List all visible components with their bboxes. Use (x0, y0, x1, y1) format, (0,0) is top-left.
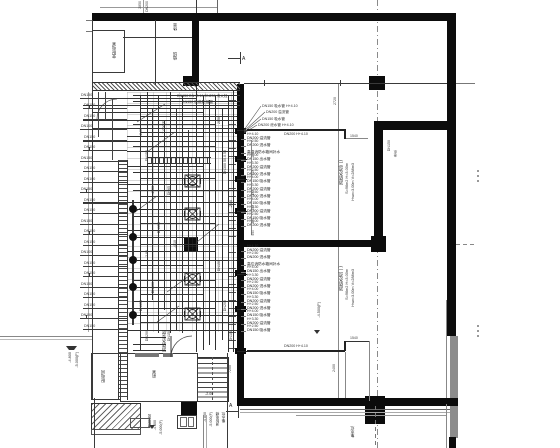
valve assembly y207 (184, 207, 201, 221)
anteroom top wall grey fill (135, 353, 159, 357)
left margin vline bottom (94, 398, 95, 448)
label 消防水池(一) (339, 266, 344, 291)
left wall second line (88, 92, 89, 332)
pipe label DN300 50.0.50 (224, 150, 228, 174)
pipe label DN65 (168, 186, 172, 195)
column C1 (mid, at tank walls junction) (371, 236, 386, 252)
pump symbol box with X (center) (185, 170, 187, 172)
anteroom 前室 (120, 353, 198, 402)
pipe riser x233 (233, 90, 234, 352)
door arc (pump room door) (168, 333, 198, 359)
door arc top-left of pump room (96, 98, 118, 120)
wall foot block at x183 (183, 76, 199, 86)
grid line horizontal y83 right stub (456, 83, 475, 84)
dim 2400 (333, 364, 337, 372)
label 前室 (152, 370, 157, 378)
pipe label DN150 (158, 222, 162, 233)
pipe riser x222 (222, 108, 223, 340)
wall tick y31 left (86, 31, 92, 32)
pipe label DN100 (230, 330, 234, 341)
ladder-hatch wall band (pump room left) (118, 160, 128, 400)
stair center line + arrow (212, 357, 213, 400)
wall: tank room (2) left (374, 121, 383, 237)
room2 labels (388, 140, 392, 151)
pipe stub rows with DN labels (left margin) (0, 0, 1, 1)
diagonal hatched pit (bottom-left) (91, 403, 141, 430)
riser ladder ticks x228-236 (228, 100, 236, 350)
pipe riser x209 (209, 100, 210, 345)
wall: right exterior upper (447, 13, 456, 336)
pipe stubs through tank wall (237, 130, 247, 131)
white clearing for door (166, 333, 196, 353)
pipe label -7.000(F) (163, 120, 167, 135)
pump at y260 (129, 256, 137, 264)
grid tick marks left margin y337 (0, 336, 92, 337)
stair flight (197, 357, 229, 402)
valve assembly y307 (184, 307, 201, 321)
pipe label 2850 (218, 116, 222, 124)
grid line horizontal y7 top (100, 7, 217, 8)
elevation marker -4.500 (tank) (317, 302, 321, 318)
pipe label DN200 (224, 300, 228, 311)
right margin faint marks (477, 170, 479, 184)
vline right of stairs (227, 353, 228, 448)
verticals near left wall top (98, 92, 99, 137)
pipe riser x215 (215, 95, 216, 350)
leader fan lines (244, 104, 284, 136)
grid line vertical x338 tank (338, 84, 339, 406)
drain pipe y350 (247, 350, 345, 352)
pipe riser x228 (228, 95, 229, 352)
label 配电间 (101, 370, 106, 383)
tank (1) annotation rows lower group (0, 0, 1, 1)
wall: top-left vertical partition (192, 20, 199, 77)
pipe label -2.00 (230, 200, 234, 208)
double lines below bottom wall (240, 409, 450, 410)
hatched wall strip y82 (92, 82, 240, 91)
elevation triangle marks (66, 346, 77, 355)
column C5 (bottom, pump room) (181, 402, 197, 415)
partition x155 (155, 20, 156, 85)
valve assembly y272 (184, 272, 201, 286)
small bracket under C5 (130, 418, 150, 428)
pipe label DN200 (146, 330, 150, 341)
label 消防水泵房 (vertical) (162, 330, 167, 352)
section marker A (lower) (226, 411, 238, 412)
pump room horizontal pipes (0, 0, 1, 1)
wall tick y20 left (86, 20, 92, 21)
tank (1) annotation rows upper group (0, 0, 1, 1)
wall node y306 (235, 306, 246, 312)
label 消防水池(二) (339, 160, 344, 185)
room: 配电间 (bottom-left) (91, 353, 121, 400)
grid line vertical (dash-dot) through column C3 (377, 0, 378, 448)
pipe label DN150 (140, 300, 144, 311)
vlines below column C5 (203, 415, 204, 448)
elevation labels left-bottom (68, 352, 72, 363)
pipe label DN150 (218, 260, 222, 271)
pump suction header line x133 (132, 200, 134, 325)
wall node y270 (235, 270, 246, 276)
flex pipe with ties y157 (147, 157, 211, 164)
tick marks on y84 line (264, 80, 265, 86)
pipe label DN150 (146, 150, 150, 161)
sump pit box bottom-center (177, 415, 197, 429)
overflow pipe y129 (247, 129, 345, 131)
pipe label -4.10 (174, 240, 178, 248)
pipe label DN100 (152, 282, 156, 293)
pipe label DN150 (168, 330, 172, 341)
wall: bottom exterior (240, 398, 458, 406)
leader fan labels top of tank (262, 104, 298, 108)
pump at y237 (129, 233, 137, 241)
pipe riser x203 (203, 95, 204, 350)
label 休息 (173, 23, 178, 31)
pump room pipe mesh (faint fill) (127, 92, 237, 332)
pipe label -2.00 (146, 250, 150, 258)
section marker A (upper) (228, 58, 240, 59)
wall: top exterior (92, 13, 456, 21)
wall node y128 (235, 128, 246, 134)
pipe label -2.00 (140, 128, 144, 136)
left exterior wall line (92, 20, 93, 400)
dim 2720 (334, 97, 338, 105)
leader labels top of pump room (177, 94, 227, 98)
grid line horizontal y244 dashes right (456, 244, 476, 245)
room: top-left (变配电室) (92, 30, 125, 73)
wall: horizontal divider y240 (240, 240, 374, 247)
tank top thin line y84 (244, 83, 447, 84)
partition line y37 (123, 37, 192, 38)
vline x446 bottom (446, 404, 447, 448)
label 值班 (173, 52, 178, 60)
grid line vertical x217 top (217, 0, 218, 13)
column C2 (bottom wall) (365, 396, 385, 424)
valve assembly y174 (184, 174, 201, 188)
wall node y176 (235, 176, 246, 182)
bottom center elevation texts (149, 425, 155, 429)
label 变配电室 (112, 42, 117, 59)
dashed vline x375 bottom (375, 406, 376, 448)
drain elbow vline x345 (345, 352, 346, 398)
pump at y315 (129, 311, 137, 319)
pipe label -2.00 (152, 186, 156, 194)
column C4 (pump room right) (184, 237, 198, 251)
grid line vertical x196 above top wall (196, 0, 197, 14)
vertical dim line x251 (251, 140, 252, 235)
grid line vertical x446 lower right (446, 300, 447, 448)
pump room vertical pipes (0, 0, 1, 1)
oblique leader lines in pump room (127, 92, 237, 332)
wall node y156 (235, 156, 246, 162)
wall node y208 (235, 208, 246, 214)
wall: right exterior lower (grey) (450, 336, 458, 438)
wall: tank room (2) top (374, 121, 456, 130)
pump at y209 (129, 205, 137, 213)
wall node y348 (235, 348, 246, 354)
wall: tank left vertical (237, 84, 244, 406)
column C3 (top, under top wall) (369, 76, 385, 90)
wall: right exterior bottom black tip (449, 437, 456, 448)
pump at y287 (129, 283, 137, 291)
label 集水坑 (350, 426, 354, 437)
tiny labels above top wall (139, 1, 143, 9)
